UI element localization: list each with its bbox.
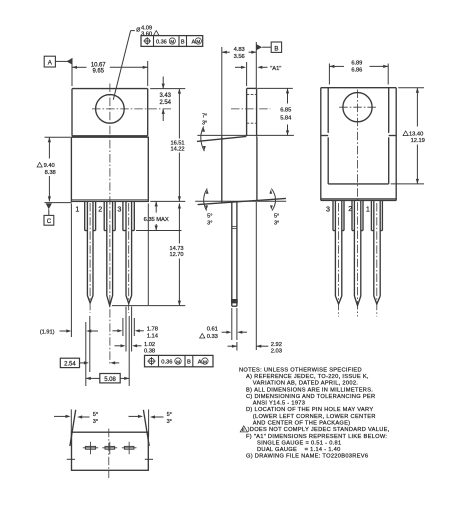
svg-text:SINGLE GAUGE = 0.51 - 0.81: SINGLE GAUGE = 0.51 - 0.81 bbox=[257, 440, 341, 446]
svg-text:Ø: Ø bbox=[136, 27, 140, 33]
angle dimension 5deg/3deg bottom draft left bbox=[204, 189, 213, 227]
side view: hole centerline bbox=[231, 108, 270, 110]
svg-text:4.09: 4.09 bbox=[141, 25, 152, 31]
angle dimension 5deg/3deg bottom draft right bbox=[269, 189, 279, 227]
bottom view: seating plane ticks bbox=[67, 458, 153, 460]
svg-text:3.43: 3.43 bbox=[159, 93, 171, 99]
svg-text:5°: 5° bbox=[207, 214, 212, 220]
svg-text:0.61: 0.61 bbox=[207, 326, 218, 332]
svg-text:B: B bbox=[181, 39, 185, 45]
dimension (1.91) body edge to lead edge bbox=[40, 203, 98, 337]
svg-text:3: 3 bbox=[117, 205, 121, 214]
svg-text:3.60: 3.60 bbox=[141, 32, 152, 38]
dimension 1.02/0.38 lead width bbox=[115, 307, 156, 355]
front view: hole horizontal centerline bbox=[92, 108, 172, 110]
svg-text:2.54: 2.54 bbox=[159, 100, 171, 106]
feature control frame (hole position tolerance) bbox=[141, 36, 203, 47]
dimension 16.51/14.22 overall package height bbox=[150, 89, 185, 202]
back view: pin number 3 bbox=[326, 205, 330, 214]
datum C flag bbox=[44, 203, 72, 226]
svg-text:4.83: 4.83 bbox=[234, 47, 245, 53]
dimension 6.85/5.84 tab height bbox=[280, 88, 292, 135]
svg-text:0.36: 0.36 bbox=[156, 39, 167, 45]
svg-text:7°: 7° bbox=[202, 114, 207, 120]
back view: lead 2 bbox=[352, 201, 363, 306]
svg-text:1.14: 1.14 bbox=[147, 334, 159, 340]
dimension 4.83/3.56 body thickness bbox=[222, 47, 256, 60]
side view: lead bbox=[231, 202, 238, 306]
svg-text:C) DIMENSIONING AND TOLERANCIN: C) DIMENSIONING AND TOLERANCING PER bbox=[246, 394, 375, 400]
svg-text:2.03: 2.03 bbox=[271, 349, 282, 355]
svg-text:14.22: 14.22 bbox=[171, 146, 185, 152]
svg-text:C: C bbox=[47, 218, 52, 225]
back view: mounting hole bbox=[343, 93, 372, 122]
svg-text:ANSI Y14.5 - 1973: ANSI Y14.5 - 1973 bbox=[253, 401, 305, 407]
svg-text:3°: 3° bbox=[274, 221, 279, 227]
angle dimension 5deg/3deg bottom view left bbox=[54, 412, 98, 425]
svg-text:DUAL GAUGE = 1.14 - 1.40: DUAL GAUGE = 1.14 - 1.40 bbox=[257, 447, 341, 453]
back view: body outline bbox=[321, 88, 396, 201]
back view: vertical centerline bbox=[357, 90, 359, 317]
svg-text:A: A bbox=[192, 39, 196, 45]
front view: mounting hole bbox=[96, 95, 125, 124]
svg-text:D) LOCATION OF THE PIN HOLE MA: D) LOCATION OF THE PIN HOLE MAY VARY bbox=[246, 407, 373, 413]
svg-text:NOTES: UNLESS OTHERWISE SPECIF: NOTES: UNLESS OTHERWISE SPECIFIED bbox=[239, 367, 362, 373]
svg-text:3°: 3° bbox=[93, 419, 98, 425]
svg-text:(LOWER LEFT CORNER, LOWER CENT: (LOWER LEFT CORNER, LOWER CENTER bbox=[253, 414, 376, 420]
dimension 0.61/0.33 lead thickness bbox=[200, 308, 247, 340]
feature control frame (lead position tolerance) bbox=[145, 355, 214, 366]
back view: pin number 2 bbox=[348, 204, 352, 213]
dimension 1.78/1.14 lead width at base bbox=[113, 318, 159, 340]
bottom view: lead 3 cross-section bbox=[122, 442, 137, 454]
side view: front face extension line bbox=[221, 47, 223, 136]
angle dimension 5deg/3deg bottom view right bbox=[129, 412, 172, 425]
svg-text:9.65: 9.65 bbox=[92, 68, 104, 74]
svg-text:B: B bbox=[187, 360, 191, 366]
back view: hole horizontal centerline bbox=[339, 106, 377, 108]
bottom view: body outline bbox=[72, 432, 149, 470]
svg-text:"A1": "A1" bbox=[270, 66, 281, 72]
svg-text:2.92: 2.92 bbox=[271, 342, 282, 348]
svg-text:6.35 MAX: 6.35 MAX bbox=[144, 217, 169, 223]
svg-text:F) "A1" DIMENSIONS REPRESENT L: F) "A1" DIMENSIONS REPRESENT LIKE BELOW: bbox=[246, 434, 387, 440]
svg-text:6.89: 6.89 bbox=[351, 61, 362, 67]
side view: seating plane reference line bbox=[195, 200, 286, 202]
side view: hole hidden lines bbox=[247, 95, 257, 124]
front view: lead 3 bbox=[123, 201, 134, 313]
svg-text:3: 3 bbox=[326, 205, 330, 214]
svg-text:13.40: 13.40 bbox=[409, 132, 423, 138]
svg-text:M: M bbox=[170, 39, 174, 44]
svg-text:0.33: 0.33 bbox=[207, 334, 218, 340]
svg-text:3°: 3° bbox=[207, 221, 212, 227]
svg-text:5°: 5° bbox=[167, 412, 172, 418]
svg-text:2.54: 2.54 bbox=[64, 361, 76, 367]
svg-text:M: M bbox=[196, 39, 200, 44]
svg-text:1.78: 1.78 bbox=[147, 327, 158, 333]
front view: pin number 1 bbox=[75, 204, 79, 213]
dimension 6.89/6.86 tab width bbox=[329, 61, 388, 85]
svg-text:2: 2 bbox=[98, 204, 102, 213]
svg-text:B) ALL DIMENSIONS ARE IN MILLI: B) ALL DIMENSIONS ARE IN MILLIMETERS. bbox=[246, 387, 373, 393]
svg-text:M: M bbox=[176, 359, 180, 364]
front view: lead 1 bbox=[85, 201, 96, 313]
svg-text:2: 2 bbox=[348, 204, 352, 213]
dimension 6.35 MAX lead shoulder length bbox=[136, 201, 182, 230]
bottom view: vertical centerline bbox=[108, 429, 110, 478]
front view: pin number 3 bbox=[117, 205, 121, 214]
front view: molded body outline bbox=[71, 137, 148, 201]
front view: vertical centerline bbox=[109, 84, 111, 366]
svg-text:6.86: 6.86 bbox=[351, 68, 362, 74]
svg-text:0.38: 0.38 bbox=[144, 349, 155, 355]
svg-text:(1.91): (1.91) bbox=[40, 329, 55, 335]
dimension 13.40/12.19 tab length bbox=[391, 88, 425, 184]
svg-text:G) DRAWING FILE NAME: TO220B03: G) DRAWING FILE NAME: TO220B03REV6 bbox=[246, 454, 368, 460]
svg-text:B: B bbox=[274, 45, 278, 52]
svg-text:5°: 5° bbox=[93, 412, 98, 418]
back view: pin number 1 bbox=[366, 205, 370, 214]
svg-text:8.38: 8.38 bbox=[45, 170, 56, 176]
basic dimension 2.54 lead pitch bbox=[60, 316, 119, 372]
front view: package tab outline bbox=[72, 89, 148, 136]
svg-text:3°: 3° bbox=[167, 419, 172, 425]
svg-text:6.85: 6.85 bbox=[280, 107, 291, 113]
svg-text:1.02: 1.02 bbox=[144, 342, 155, 348]
bottom view: right side draft projection bbox=[143, 409, 149, 446]
svg-text:3°: 3° bbox=[202, 121, 207, 127]
svg-text:5.84: 5.84 bbox=[280, 115, 292, 121]
svg-text:0.36: 0.36 bbox=[161, 360, 172, 366]
svg-text:1: 1 bbox=[75, 204, 79, 213]
angle dimension 7deg/3deg top draft bbox=[201, 114, 207, 152]
notes text block bbox=[239, 367, 390, 459]
svg-text:12.70: 12.70 bbox=[170, 252, 184, 258]
svg-text:3.56: 3.56 bbox=[234, 54, 245, 60]
svg-text:)DOES NOT COMPLY JEDEC STANDAR: )DOES NOT COMPLY JEDEC STANDARD VALUE, bbox=[248, 427, 390, 433]
svg-text:1: 1 bbox=[366, 205, 370, 214]
svg-text:9.40: 9.40 bbox=[44, 163, 55, 169]
basic dimension 5.08 lead span bbox=[86, 316, 129, 386]
dimension 3.43/2.54 hole center from package top bbox=[150, 77, 185, 122]
datum B flag bbox=[256, 42, 281, 52]
back view: tab silhouette edges bbox=[321, 88, 396, 184]
dimension 14.73/12.70 lead length bbox=[112, 203, 185, 305]
side view: body outline bbox=[197, 136, 286, 204]
side view: tab outline bbox=[247, 88, 257, 136]
front view: pin number 2 bbox=[98, 204, 102, 213]
front view: lead 2 bbox=[104, 201, 115, 305]
svg-text:E: E bbox=[242, 427, 245, 432]
svg-text:12.19: 12.19 bbox=[411, 138, 425, 144]
svg-text:5.08: 5.08 bbox=[104, 377, 116, 383]
side view: body top reference line bbox=[197, 134, 294, 136]
svg-text:5°: 5° bbox=[274, 214, 279, 220]
svg-text:VARIATION AB, DATED APRIL, 200: VARIATION AB, DATED APRIL, 2002. bbox=[253, 381, 358, 387]
datum A flag bbox=[44, 56, 72, 67]
side view: back face extension line (datum B) bbox=[255, 42, 257, 350]
side view: tab top extension line bbox=[257, 87, 293, 89]
dimension 10.67/9.65 package width bbox=[72, 58, 148, 86]
svg-text:A: A bbox=[198, 360, 202, 366]
dimension Ø4.09/3.60 hole diameter callout bbox=[113, 25, 159, 99]
bottom view: lead 2 cross-section bbox=[102, 442, 117, 454]
bottom view: left side draft projection bbox=[70, 409, 76, 446]
dimension 2.92/2.03 lead to back face bbox=[228, 342, 282, 355]
back view: lead 1 bbox=[371, 201, 382, 317]
dimension "A1" gauge plane bbox=[235, 62, 281, 86]
svg-text:AND CENTER OF THE PACKAGE): AND CENTER OF THE PACKAGE) bbox=[253, 421, 351, 427]
svg-text:A) REFERENCE JEDEC, TO-220, IS: A) REFERENCE JEDEC, TO-220, ISSUE K, bbox=[246, 374, 369, 380]
bottom view: lead 1 cross-section bbox=[83, 442, 98, 454]
svg-text:M: M bbox=[203, 359, 207, 364]
dimension 9.40/8.38 body height bbox=[37, 137, 71, 201]
back view: lead 3 bbox=[333, 201, 344, 317]
